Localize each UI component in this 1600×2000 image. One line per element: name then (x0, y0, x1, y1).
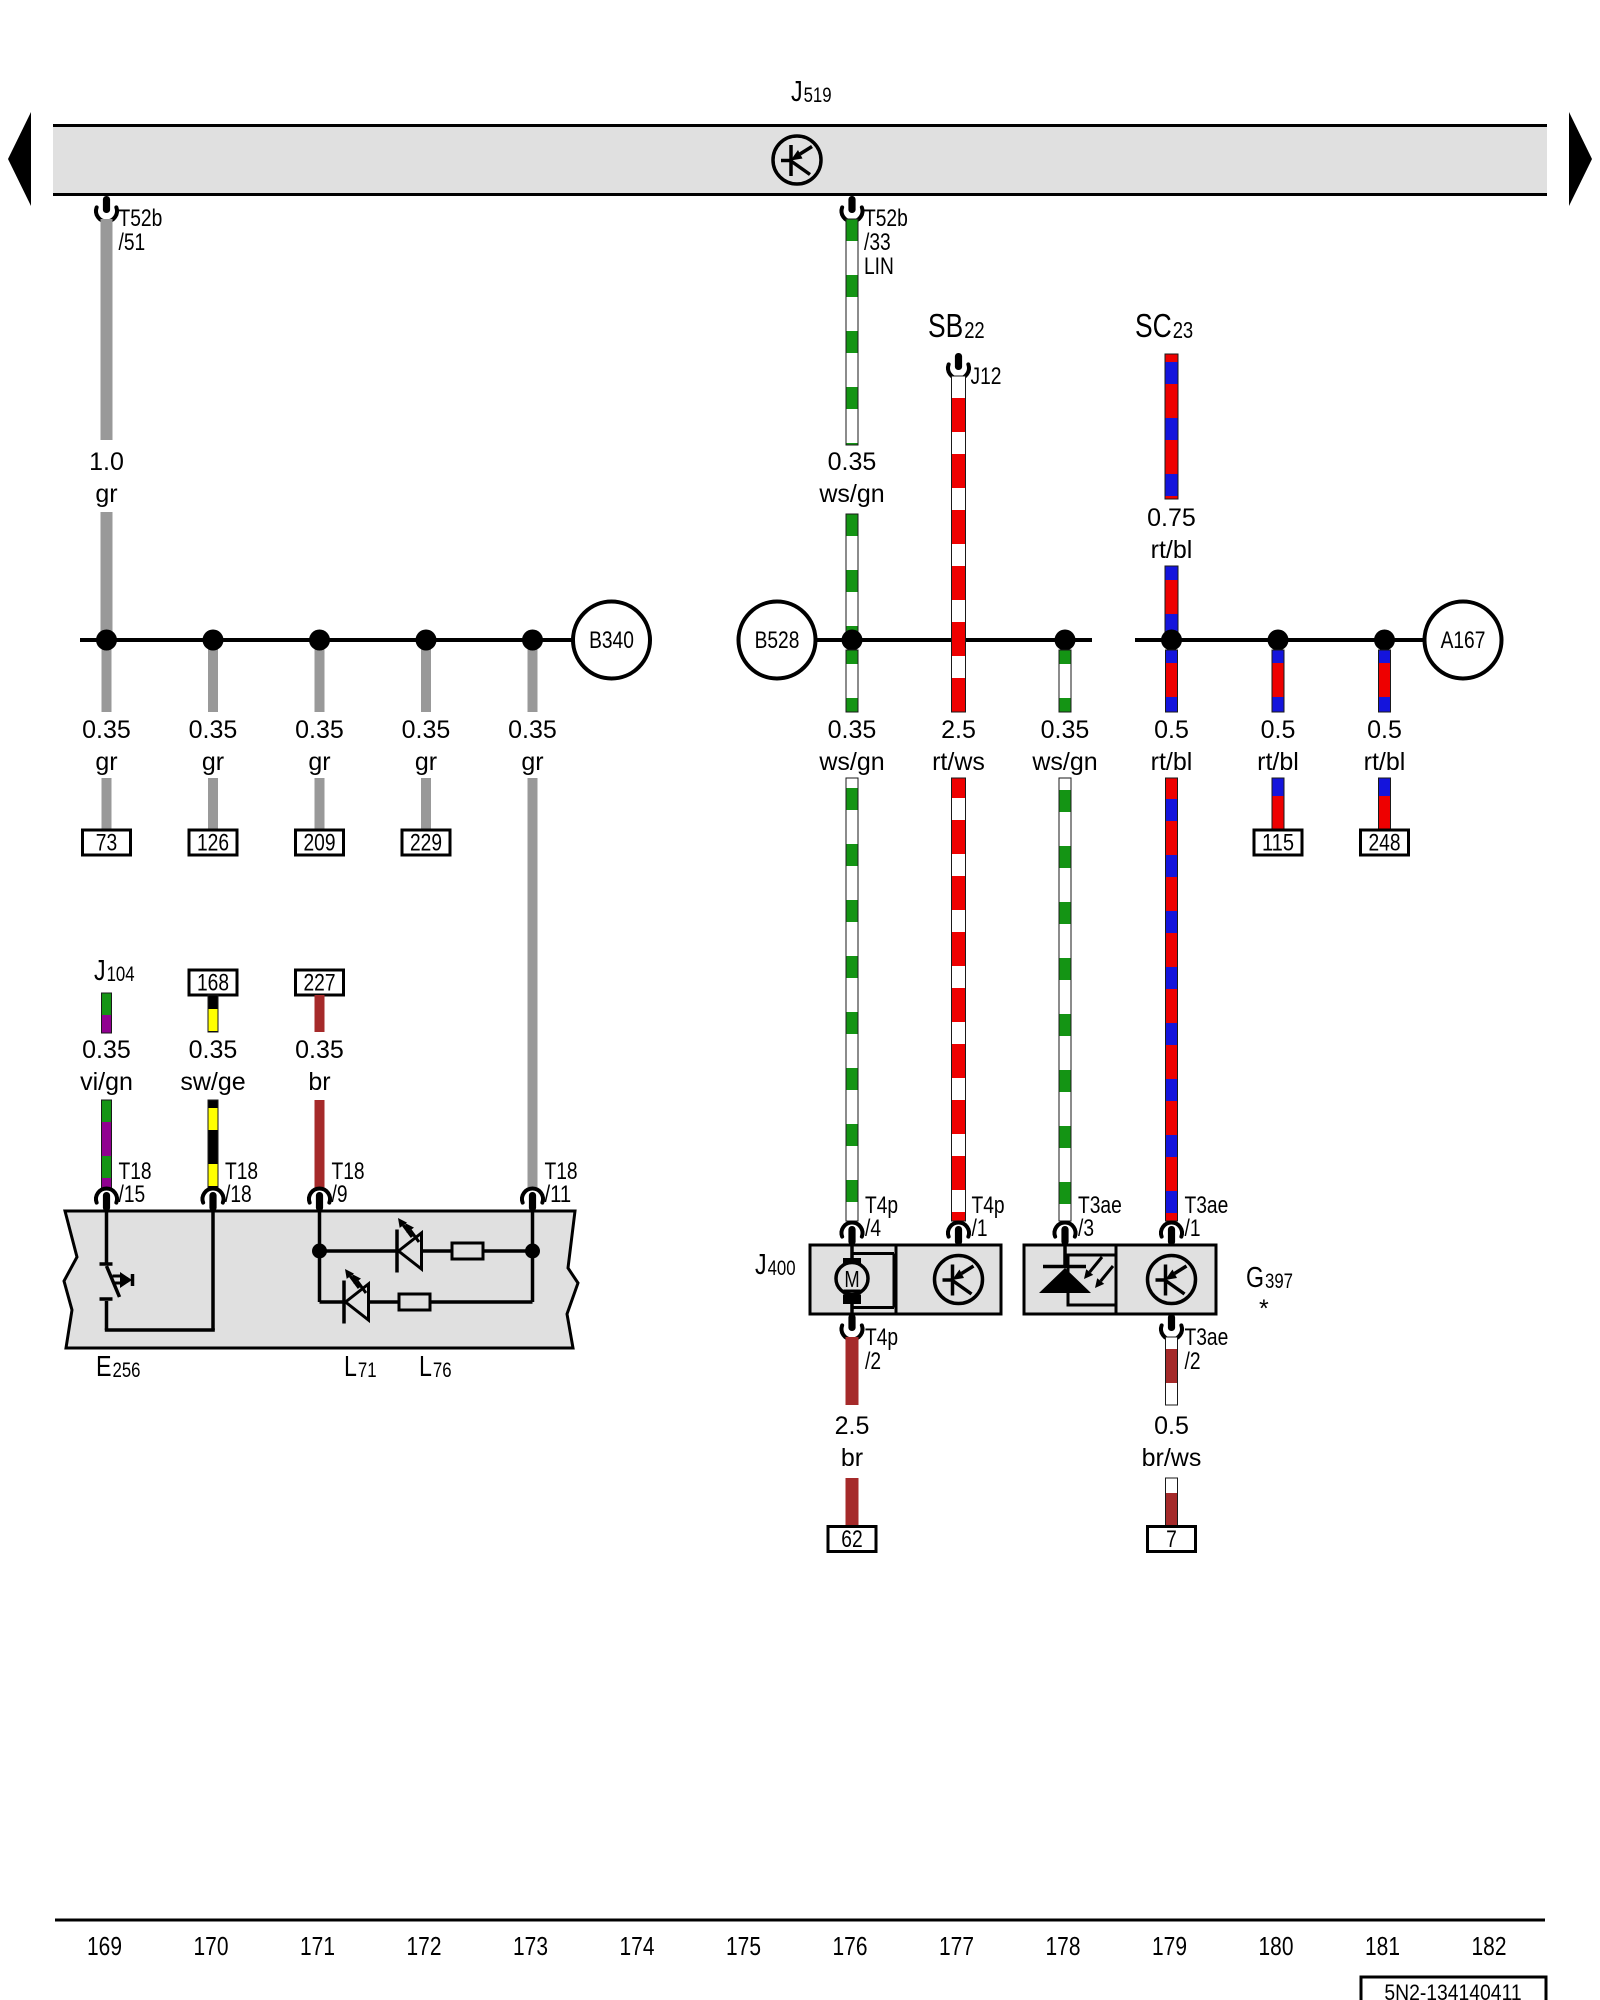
node track 178 on B528 line (1055, 630, 1076, 651)
svg-text:/18: /18 (225, 1181, 252, 1208)
control-module symbol in G397 (1148, 1256, 1196, 1304)
svg-text:1.0: 1.0 (89, 448, 124, 476)
svg-text:170: 170 (194, 1933, 229, 1961)
label 0.35 br (295, 1036, 344, 1096)
svg-text:173: 173 (513, 1933, 548, 1961)
svg-text:104: 104 (107, 963, 135, 986)
svg-text:519: 519 (804, 84, 832, 107)
wire resistor to right rail (L76 branch) (430, 1251, 533, 1302)
node track 181 on A167 line (1374, 630, 1395, 651)
svg-text:227: 227 (304, 970, 336, 997)
connector T3ae/3 (1055, 1192, 1122, 1245)
svg-text:22: 22 (964, 317, 985, 343)
terminal box 227 (296, 970, 344, 997)
svg-text:/2: /2 (1185, 1348, 1201, 1375)
terminal box 209 (296, 830, 344, 857)
connector T18/15 (96, 1158, 152, 1211)
wire 0.35 gr to terminal 73 (102, 778, 112, 831)
svg-text:5N2-134140411: 5N2-134140411 (1384, 1980, 1521, 2000)
wire 0.35 br upper segment (315, 995, 325, 1032)
terminal box 126 (189, 830, 237, 857)
component box J400 (wiper motor) (810, 1245, 1001, 1314)
connection circle B528 (739, 602, 816, 679)
svg-text:B340: B340 (589, 627, 634, 654)
wire 0.35 sw/ge lower segment (208, 1100, 218, 1188)
svg-text:gr: gr (521, 748, 543, 776)
svg-text:LIN: LIN (864, 253, 894, 280)
wire 0.35 vi/gn upper segment (102, 993, 112, 1033)
label 0.35 sw/ge (180, 1036, 245, 1096)
svg-text:7: 7 (1166, 1526, 1177, 1553)
label 0.35 ws/gn (track 176 lower) (818, 716, 884, 776)
svg-text:126: 126 (197, 830, 229, 857)
svg-text:397: 397 (1265, 1270, 1293, 1293)
control-module symbol in J400 (935, 1256, 983, 1304)
current track numbers 169-182 (87, 1933, 1506, 1961)
terminal box 115 (1254, 830, 1302, 857)
svg-text:169: 169 (87, 1933, 122, 1961)
svg-text:/2: /2 (865, 1348, 881, 1375)
svg-text:175: 175 (726, 1933, 761, 1961)
svg-text:76: 76 (433, 1359, 452, 1382)
svg-text:178: 178 (1046, 1933, 1081, 1961)
wire 0.35 gr to terminal 209 (315, 778, 325, 831)
svg-text:181: 181 (1365, 1933, 1400, 1961)
svg-text:L: L (419, 1351, 432, 1383)
LED L76 (344, 1269, 369, 1324)
photodiode symbol (G397) (1039, 1245, 1116, 1305)
svg-text:SC: SC (1135, 307, 1172, 344)
svg-text:179: 179 (1152, 1933, 1187, 1961)
connector T3ae/1 (1161, 1192, 1228, 1245)
wire 0.5 br/ws upper segment (1166, 1337, 1178, 1405)
svg-text:209: 209 (304, 830, 336, 857)
svg-text:gr: gr (95, 748, 117, 776)
svg-text:T4p: T4p (865, 1324, 898, 1351)
svg-text:62: 62 (841, 1526, 862, 1553)
terminal box 62 (828, 1526, 876, 1553)
wire 2.5 br lower segment (846, 1478, 859, 1527)
motor symbol M (J400) (836, 1245, 894, 1314)
svg-text:E: E (96, 1351, 112, 1383)
label L71 (344, 1351, 377, 1383)
node on B340 line (track 172) (416, 630, 437, 651)
connector T18/18 (202, 1158, 258, 1211)
wire 0.75 rt/bl middle segment (1165, 566, 1178, 640)
wire 0.5 rt/bl stub (track 181) (1379, 778, 1391, 831)
wire 0.5 br/ws lower segment (1166, 1478, 1178, 1527)
switch E256 (push-button) (100, 1264, 133, 1299)
junction line A167 segment 2 (1135, 638, 1425, 642)
wire 0.35 gr to terminal 126 (208, 778, 218, 831)
wire 0.5 rt/bl stub (track 180) (1272, 778, 1284, 831)
wire right rail to T18/11 (531, 1211, 535, 1251)
svg-text:0.35: 0.35 (189, 1036, 238, 1064)
node on B340 line (track 170) (203, 630, 224, 651)
svg-text:gr: gr (415, 748, 437, 776)
svg-text:0.35: 0.35 (1041, 716, 1090, 744)
label 0.35 gr (track 173) (508, 716, 557, 776)
bus bar control unit J519 (53, 124, 1547, 196)
svg-text:A167: A167 (1441, 627, 1486, 654)
label SB22 (928, 307, 985, 344)
svg-text:J12: J12 (971, 363, 1002, 390)
node on B340 line (track 171) (309, 630, 330, 651)
wire 0.35 vi/gn lower segment (102, 1100, 112, 1188)
svg-text:23: 23 (1173, 317, 1194, 343)
node LED circuit left (312, 1244, 327, 1259)
wire to LED L76 (320, 1300, 344, 1304)
wire 0.35 br lower segment (315, 1100, 325, 1188)
connection circle B340 (573, 602, 650, 679)
node track 176 on B528 line (842, 630, 863, 651)
label 0.35 ws/gn upper (818, 448, 884, 508)
terminal box 168 (189, 970, 237, 997)
svg-text:G: G (1246, 1262, 1264, 1294)
label * footnote (1259, 1295, 1269, 1323)
connector T18/9 (309, 1158, 365, 1211)
wire 1.0 gr lower segment (101, 512, 113, 640)
node track 179 on A167 line (1161, 630, 1182, 651)
label 0.5 rt/bl (track 179) (1151, 716, 1193, 776)
svg-text:/15: /15 (119, 1181, 146, 1208)
connector T4p/4 (842, 1192, 899, 1245)
svg-text:115: 115 (1262, 830, 1294, 857)
svg-text:171: 171 (300, 1933, 335, 1961)
svg-text:/4: /4 (865, 1215, 881, 1242)
node track 180 on A167 line (1268, 630, 1289, 651)
svg-text:/9: /9 (332, 1181, 348, 1208)
label 0.5 rt/bl (track 181) (1364, 716, 1406, 776)
svg-text:T52b: T52b (864, 205, 908, 232)
wire 0.35 ws/gn middle segment (846, 514, 858, 640)
wire 0.5 rt/bl below node (track 181) (1379, 650, 1391, 712)
wire 0.5 rt/bl long (track 179) (1166, 778, 1178, 1221)
svg-text:176: 176 (833, 1933, 868, 1961)
wire resistor to right rail (483, 1249, 533, 1253)
wire 2.5 br upper segment (846, 1337, 859, 1405)
label J519 (791, 76, 832, 108)
svg-text:180: 180 (1259, 1933, 1294, 1961)
label J104 (94, 955, 135, 987)
svg-text:ws/gn: ws/gn (818, 480, 884, 508)
wire 0.35 gr (track 172) upper (421, 640, 431, 712)
terminal box 7 (1148, 1526, 1196, 1553)
wire 0.5 rt/bl below node (track 179) (1166, 650, 1178, 712)
control-module symbol inside J519 (773, 136, 821, 184)
svg-text:182: 182 (1472, 1933, 1507, 1961)
connector T52b/33 (LIN) (842, 196, 908, 280)
label 0.35 gr (track 170) (189, 716, 238, 776)
svg-text:0.35: 0.35 (189, 716, 238, 744)
label J400 (755, 1249, 796, 1281)
svg-text:T52b: T52b (119, 205, 163, 232)
svg-text:gr: gr (308, 748, 330, 776)
svg-text:L: L (344, 1351, 357, 1383)
svg-text:*: * (1259, 1295, 1269, 1323)
svg-text:rt/bl: rt/bl (1257, 748, 1299, 776)
label 0.35 gr (track 171) (295, 716, 344, 776)
wire 1.0 gr upper segment (101, 219, 113, 440)
label 0.35 gr (track 169) (82, 716, 131, 776)
label L76 (419, 1351, 452, 1383)
svg-text:sw/ge: sw/ge (180, 1068, 245, 1096)
label E256 (96, 1351, 141, 1383)
svg-text:2.5: 2.5 (941, 716, 976, 744)
svg-text:0.5: 0.5 (1261, 716, 1296, 744)
svg-text:0.35: 0.35 (295, 716, 344, 744)
wire 2.5 rt/ws long (track 177) (952, 778, 966, 1221)
label 2.5 rt/ws (track 177) (932, 716, 985, 776)
svg-text:174: 174 (620, 1933, 655, 1961)
svg-text:B528: B528 (755, 627, 800, 654)
svg-text:rt/bl: rt/bl (1151, 536, 1193, 564)
svg-text:J: J (755, 1249, 767, 1281)
connector T52b/51 (96, 196, 162, 256)
svg-text:0.5: 0.5 (1154, 716, 1189, 744)
svg-text:J: J (791, 76, 803, 108)
svg-text:2.5: 2.5 (835, 1412, 870, 1440)
svg-text:/51: /51 (119, 229, 146, 256)
component box E256 / L71 / L76 (64, 1211, 578, 1348)
wire from T18/15 to switch (105, 1211, 109, 1263)
svg-text:0.35: 0.35 (402, 716, 451, 744)
label 0.35 vi/gn (80, 1036, 133, 1096)
wire 0.35 gr long (track 173) to T18/11 (528, 778, 538, 1188)
connection circle A167 (1425, 602, 1502, 679)
wire LED L71 to resistor (422, 1249, 453, 1253)
wire 0.35 gr to terminal 229 (421, 778, 431, 831)
wire LED L76 to resistor (369, 1300, 400, 1304)
svg-text:0.5: 0.5 (1367, 716, 1402, 744)
svg-text:/33: /33 (864, 229, 891, 256)
svg-text:br: br (841, 1444, 863, 1472)
svg-text:/1: /1 (1185, 1215, 1201, 1242)
wire from T18/9 into LED circuit (318, 1211, 322, 1251)
svg-text:229: 229 (410, 830, 442, 857)
label 0.5 br/ws (1142, 1412, 1202, 1472)
wire from switch to T18/18 (105, 1211, 215, 1330)
label 0.35 ws/gn (track 178) (1031, 716, 1097, 776)
svg-text:br: br (308, 1068, 330, 1096)
svg-text:0.5: 0.5 (1154, 1412, 1189, 1440)
svg-text:0.35: 0.35 (828, 448, 877, 476)
label 2.5 br (835, 1412, 870, 1472)
svg-text:T3ae: T3ae (1185, 1324, 1229, 1351)
wire 0.35 gr (track 170) upper (208, 640, 218, 712)
svg-text:71: 71 (358, 1359, 377, 1382)
resistor (L76 branch) (399, 1294, 430, 1310)
svg-text:248: 248 (1369, 830, 1401, 857)
node LED circuit right (525, 1244, 540, 1259)
resistor (L71 branch) (452, 1243, 483, 1259)
svg-text:0.35: 0.35 (828, 716, 877, 744)
junction line B528 segment 1 (815, 638, 1092, 642)
node on B340 line (track 173) (522, 630, 543, 651)
wire 0.35 gr (track 173) upper (528, 640, 538, 712)
svg-text:0.35: 0.35 (295, 1036, 344, 1064)
svg-text:168: 168 (197, 970, 229, 997)
connector T18/11 (522, 1158, 578, 1211)
wire 0.35 sw/ge upper segment (208, 995, 218, 1032)
svg-text:vi/gn: vi/gn (80, 1068, 133, 1096)
svg-text:400: 400 (768, 1257, 796, 1280)
label 0.35 gr (track 172) (402, 716, 451, 776)
svg-text:0.35: 0.35 (82, 716, 131, 744)
svg-text:177: 177 (939, 1933, 974, 1961)
svg-text:/1: /1 (972, 1215, 988, 1242)
svg-text:gr: gr (95, 480, 117, 508)
svg-text:br/ws: br/ws (1142, 1444, 1202, 1472)
svg-text:172: 172 (407, 1933, 442, 1961)
page arrow left (8, 112, 31, 206)
svg-text:ws/gn: ws/gn (1031, 748, 1097, 776)
svg-text:256: 256 (113, 1359, 141, 1382)
wire 2.5 rt/ws (track 177) (952, 376, 966, 712)
label SC23 (1135, 307, 1193, 344)
label G397 (1246, 1262, 1293, 1294)
svg-text:0.35: 0.35 (82, 1036, 131, 1064)
svg-text:/11: /11 (545, 1181, 572, 1208)
svg-text:rt/bl: rt/bl (1364, 748, 1406, 776)
wire to LED L71 (320, 1249, 397, 1253)
page arrow right (1569, 112, 1592, 206)
svg-text:gr: gr (202, 748, 224, 776)
current track scale line (55, 1919, 1545, 1922)
svg-text:M: M (844, 1266, 859, 1292)
connector T4p/1 (948, 1192, 1005, 1245)
node on B340 line (track 169) (96, 630, 117, 651)
svg-text:J: J (94, 955, 106, 987)
terminal box 248 (1361, 830, 1409, 857)
wire 0.35 ws/gn below node (track 176) (846, 650, 858, 712)
svg-text:rt/bl: rt/bl (1151, 748, 1193, 776)
wire 0.35 ws/gn long (track 178) (1059, 778, 1071, 1221)
svg-text:rt/ws: rt/ws (932, 748, 985, 776)
wire 0.35 gr (track 171) upper (315, 640, 325, 712)
wire 0.35 gr (track 169) upper (102, 640, 112, 712)
svg-text:/3: /3 (1078, 1215, 1094, 1242)
svg-text:ws/gn: ws/gn (818, 748, 884, 776)
wire left rail down to L76 branch (318, 1251, 322, 1302)
diagram number box 5N2-134140411 (1361, 1977, 1546, 2000)
connector T3ae/2 (1161, 1314, 1228, 1375)
wire 0.75 rt/bl upper segment (track 179) (1165, 354, 1178, 499)
wire 0.5 rt/bl below node (track 180) (1272, 650, 1284, 712)
wire 0.35 ws/gn below node (track 178) (1059, 650, 1071, 712)
svg-text:SB: SB (928, 307, 963, 344)
wire 0.35 ws/gn long (track 176) (846, 778, 858, 1221)
label 0.75 rt/bl (1147, 504, 1196, 564)
label 1.0 gr (89, 448, 124, 508)
LED L71 (397, 1218, 422, 1273)
connector T4p/2 (842, 1314, 899, 1375)
terminal box 229 (402, 830, 450, 857)
svg-text:0.35: 0.35 (508, 716, 557, 744)
wire 0.35 ws/gn upper segment (track 176) (846, 219, 858, 445)
connector J12 (948, 353, 1001, 390)
svg-text:73: 73 (96, 830, 117, 857)
svg-text:0.75: 0.75 (1147, 504, 1196, 532)
label 0.5 rt/bl (track 180) (1257, 716, 1299, 776)
component box G397 (rain/light sensor) (1024, 1245, 1216, 1314)
terminal box 73 (83, 830, 131, 857)
junction line B340 (80, 638, 573, 642)
